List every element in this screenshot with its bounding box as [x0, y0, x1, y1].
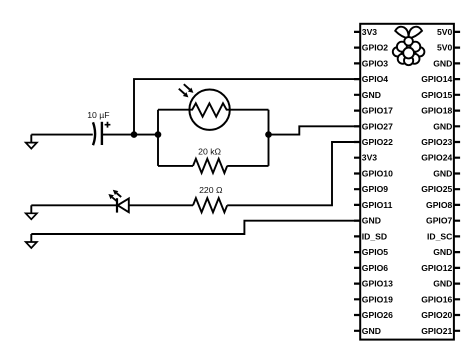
svg-text:GPIO11: GPIO11 — [362, 200, 393, 210]
svg-text:GPIO3: GPIO3 — [362, 58, 388, 68]
svg-text:GPIO21: GPIO21 — [421, 326, 452, 336]
svg-text:GPIO16: GPIO16 — [421, 294, 452, 304]
svg-text:GND: GND — [362, 216, 381, 226]
svg-text:GPIO8: GPIO8 — [426, 200, 452, 210]
svg-text:220 Ω: 220 Ω — [199, 185, 223, 195]
svg-text:GPIO9: GPIO9 — [362, 184, 388, 194]
svg-text:GPIO26: GPIO26 — [362, 310, 393, 320]
svg-text:GND: GND — [433, 247, 452, 257]
svg-text:GPIO6: GPIO6 — [362, 263, 388, 273]
svg-text:GND: GND — [433, 169, 452, 179]
svg-text:GPIO10: GPIO10 — [362, 169, 393, 179]
svg-text:GPIO22: GPIO22 — [362, 137, 393, 147]
svg-text:GPIO5: GPIO5 — [362, 247, 388, 257]
svg-text:GPIO15: GPIO15 — [421, 90, 452, 100]
svg-text:10 µF: 10 µF — [87, 110, 109, 120]
svg-text:GND: GND — [433, 58, 452, 68]
svg-text:ID_SD: ID_SD — [362, 231, 387, 241]
svg-text:GPIO7: GPIO7 — [426, 216, 452, 226]
svg-text:GND: GND — [362, 326, 381, 336]
svg-text:20 kΩ: 20 kΩ — [198, 146, 221, 156]
svg-text:GPIO24: GPIO24 — [421, 153, 452, 163]
svg-text:GPIO4: GPIO4 — [362, 74, 388, 84]
svg-text:GND: GND — [362, 90, 381, 100]
svg-text:GPIO20: GPIO20 — [421, 310, 452, 320]
svg-text:GPIO13: GPIO13 — [362, 279, 393, 289]
svg-text:GPIO14: GPIO14 — [421, 74, 452, 84]
svg-text:GPIO12: GPIO12 — [421, 263, 452, 273]
svg-text:3V3: 3V3 — [362, 153, 378, 163]
svg-text:5V0: 5V0 — [437, 27, 453, 37]
svg-text:GPIO17: GPIO17 — [362, 106, 393, 116]
svg-text:GPIO27: GPIO27 — [362, 121, 393, 131]
svg-text:GPIO25: GPIO25 — [421, 184, 452, 194]
svg-text:GND: GND — [433, 121, 452, 131]
svg-text:GND: GND — [433, 279, 452, 289]
svg-text:ID_SC: ID_SC — [427, 231, 452, 241]
svg-text:GPIO19: GPIO19 — [362, 294, 393, 304]
svg-text:5V0: 5V0 — [437, 43, 453, 53]
svg-text:GPIO23: GPIO23 — [421, 137, 452, 147]
svg-text:GPIO2: GPIO2 — [362, 43, 388, 53]
svg-text:GPIO18: GPIO18 — [421, 106, 452, 116]
svg-text:3V3: 3V3 — [362, 27, 378, 37]
